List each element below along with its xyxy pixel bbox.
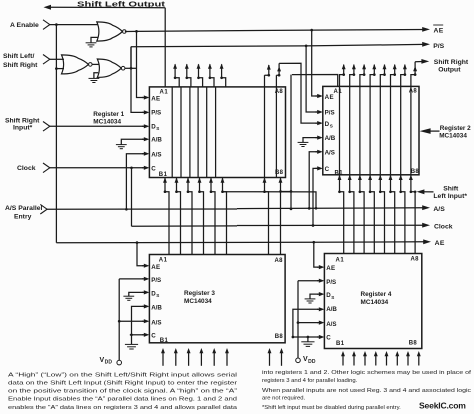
register 2 bus line 1 through box xyxy=(339,86,341,174)
wire AE rail down to register 3 AE xyxy=(137,243,144,266)
register 1 A-bus up-arrow 5 xyxy=(210,64,214,87)
svg-text:AE: AE xyxy=(435,240,445,247)
VDD supply terminal register 4 xyxy=(296,358,301,363)
svg-text:A8: A8 xyxy=(411,257,420,263)
register 1 internal bus line 5 xyxy=(206,87,208,178)
svg-text:Register 2: Register 2 xyxy=(440,125,471,132)
nor gate G1 (A Enable NOR gnd -> AE-bar) xyxy=(97,22,123,41)
register 2 A-bus hook and up-arrow 8 xyxy=(411,62,415,87)
svg-text:Clock: Clock xyxy=(17,165,36,172)
wire register 1 B8 branch to A/S bus drop xyxy=(281,191,292,193)
svg-text:Shift: Shift xyxy=(443,186,459,193)
svg-text:A/B: A/B xyxy=(151,305,162,312)
svg-text:S: S xyxy=(156,293,159,298)
wire mid vertical from A1 feed down to A/S bus xyxy=(290,75,292,209)
node junction A Enable bus to gate G2 input xyxy=(55,67,58,70)
svg-text:P/S: P/S xyxy=(151,277,161,284)
register 4 B output stub 2 xyxy=(353,355,355,365)
ground symbol at gate G4 input xyxy=(89,77,100,79)
svg-text:B1: B1 xyxy=(159,172,168,178)
input terminal chevron Shift Right Input xyxy=(43,122,50,132)
node junction A/S bus to register 1 A/S xyxy=(125,208,128,211)
node junction G4 output to P/S rail xyxy=(130,67,133,70)
svg-text:AE: AE xyxy=(325,94,334,101)
svg-text:AE: AE xyxy=(326,265,335,272)
register 2 B-bus jog 8 to register 4 xyxy=(409,175,413,180)
node junction mid vertical on A/S bus xyxy=(290,208,293,211)
svg-text:A/B: A/B xyxy=(326,306,337,313)
svg-text:B1: B1 xyxy=(160,338,169,344)
svg-text:AE: AE xyxy=(151,264,160,271)
svg-text:B8: B8 xyxy=(409,341,418,347)
register 2 bus line 8 through box xyxy=(410,86,412,174)
svg-text:A1: A1 xyxy=(159,258,168,264)
node junction register 4 A/B-C tie xyxy=(292,336,295,339)
register 3 B output stub 1 xyxy=(162,353,164,366)
wire Shift Left Output rail with left arrowhead xyxy=(50,6,165,9)
node junction AE-bar to register 2 AE xyxy=(310,29,313,32)
svg-text:P/S: P/S xyxy=(325,109,335,116)
svg-text:data on the Shift Left Input (: data on the Shift Left Input (Shift Righ… xyxy=(8,381,237,387)
register 1 B7 line to register 3 xyxy=(263,178,267,183)
register 3 B output stub 7 xyxy=(269,353,271,366)
output arrowhead A/S xyxy=(422,205,430,210)
pin arrow register 1 P/S xyxy=(142,111,144,113)
node junction register 4 C to ground xyxy=(307,336,310,339)
register 1 B-bus line 1 to register 3 xyxy=(163,178,167,183)
node junction register 3 A/S on VDD spine xyxy=(118,320,121,323)
register 2 bus line 4 through box xyxy=(369,86,371,174)
register 4 B output stub 6 xyxy=(396,355,398,365)
wire A/S Parallel Entry bus xyxy=(47,208,237,210)
output arrowhead P/S xyxy=(422,42,430,47)
wire junction to NOR gate G2 lower input xyxy=(56,68,64,70)
svg-text:A8: A8 xyxy=(409,89,418,95)
wire register 4 ground stem xyxy=(307,337,309,342)
wire VDD spine to register 3 P/S xyxy=(119,278,144,280)
pin arrow register 2 DS xyxy=(315,122,317,124)
svg-text:A1: A1 xyxy=(160,90,169,96)
node junction AE rail to register 4 AE xyxy=(312,241,315,244)
wire register 4 DS to ground xyxy=(310,294,319,299)
register 4 B output stub 1 xyxy=(342,355,344,365)
register 1 B-bus line 2 to register 3 xyxy=(175,178,179,183)
svg-text:A1: A1 xyxy=(334,89,343,95)
wire Shift Right Output from register 2 A8 xyxy=(415,61,423,63)
register 4 B output stub 7 xyxy=(407,355,409,365)
node junction AE rail to register 3 AE xyxy=(136,241,139,244)
register 2 B-bus jog 6 to register 4 xyxy=(389,175,393,180)
node junction P/S rail to register 2 P/S xyxy=(305,45,308,48)
node junction register 3 A/B-C tie xyxy=(130,333,133,336)
wire Shift Right Input to register 1 pin DS xyxy=(49,125,144,127)
register 2 B-bus jog 7 to register 4 xyxy=(399,175,403,180)
pin arrow register 2 A/S xyxy=(315,151,317,153)
svg-text:A/B: A/B xyxy=(325,135,336,142)
wire P/S down to register 1 pin P/S xyxy=(131,47,144,113)
pin arrow register 4 A/B xyxy=(317,308,319,310)
output arrowhead Clock xyxy=(422,223,430,228)
register 1 A8 hook with arrow feeding register 2 DS xyxy=(276,63,279,75)
register 4 B output stub 4 xyxy=(375,355,377,365)
register 3 B output stub 5 xyxy=(213,353,215,366)
register U1 Register 1 MC14034 box xyxy=(149,87,285,178)
wire register 4 A/S from VDD spine xyxy=(298,322,319,324)
register 2 B-bus jog 4 to register 4 xyxy=(368,175,372,180)
register 1 A8 riser through box xyxy=(275,75,277,177)
register U4 Register 4 MC14034 box xyxy=(324,254,421,349)
register 1 internal bus line 3 xyxy=(189,87,191,178)
svg-text:DD: DD xyxy=(308,359,316,365)
svg-text:A Enable: A Enable xyxy=(10,22,39,29)
ground symbol at register 2 A/B xyxy=(298,141,309,143)
svg-text:Shift Right: Shift Right xyxy=(3,62,38,69)
VDD supply terminal register 3 xyxy=(117,360,122,365)
wire register 1 B6 jog extension to A/S bus xyxy=(223,192,317,209)
pin arrow register 2 P/S xyxy=(315,111,317,113)
pin arrow register 2 A/B xyxy=(315,137,317,139)
register 2 B-bus jog 2 to register 4 xyxy=(348,175,352,180)
ground symbol at register 4 DS xyxy=(305,298,316,300)
svg-text:A/S: A/S xyxy=(325,149,335,156)
svg-text:Left Input*: Left Input* xyxy=(433,193,467,200)
register 4 B output stub 5 xyxy=(386,355,388,365)
wire AE-bar down to register 2 pin AE xyxy=(312,30,317,96)
register 2 A-bus hook and up-arrow 5 xyxy=(380,65,384,87)
wire G4 lower input stub to ground xyxy=(94,73,98,79)
register 3 B output stub 8 xyxy=(281,353,283,366)
svg-text:P/S: P/S xyxy=(151,110,161,117)
nor gate G4 (buffer NOR with grounded input -> P/S) xyxy=(97,59,121,77)
pin arrow register 3 DS xyxy=(142,291,144,293)
svg-text:registers 3 and 4 for parallel: registers 3 and 4 for parallel loading. xyxy=(262,378,358,384)
wire A Enable rail to right edge xyxy=(137,241,314,243)
register 2 A-bus hook and up-arrow 3 xyxy=(360,65,364,87)
svg-text:S: S xyxy=(156,126,159,131)
node junction mid vertical at B8 branch xyxy=(290,190,293,193)
register 3 B output stub 3 xyxy=(188,353,190,366)
svg-text:A/S: A/S xyxy=(151,319,161,326)
wire VDD spine vertical register 3 xyxy=(118,279,120,360)
register U3 Register 3 MC14034 box xyxy=(149,255,285,343)
wire P/S rail to right edge xyxy=(131,45,306,48)
register 2 A-bus hook and up-arrow 4 xyxy=(370,65,374,87)
register 1 A7 riser through box xyxy=(264,75,266,177)
register 2 bus line 6 through box xyxy=(390,86,392,174)
svg-text:C: C xyxy=(151,332,156,339)
wire Shift Left Output vertical drop to register 1 pin A1 xyxy=(164,8,166,87)
pin arrow register 1 C xyxy=(142,167,144,169)
register 2 A-bus hook and up-arrow 2 xyxy=(350,65,354,87)
wire register 3 A/B down to C junction and ground xyxy=(132,306,144,344)
wire A Enable rail corner at left xyxy=(56,242,137,244)
svg-text:C: C xyxy=(326,334,331,341)
node junction AE-bar to register 1 AE xyxy=(135,30,138,33)
wire Clock rail to right edge xyxy=(132,225,238,227)
input terminal chevron Clock xyxy=(43,163,50,173)
register 1 internal bus line 4 xyxy=(197,87,199,178)
wire clock drop to clock rail xyxy=(131,168,133,227)
wire VDD spine vertical register 4 xyxy=(297,281,299,358)
wire A Enable vertical bus down left side xyxy=(55,25,57,243)
wire A/S bus riser to register 2 A/S xyxy=(309,152,317,209)
register 2 A-bus hook and up-arrow 1 xyxy=(340,65,344,87)
wire Shift Left Input to register 2 B8 xyxy=(420,191,434,193)
register 1 B-bus line 6 to register 3 xyxy=(221,178,225,183)
register 1 internal bus line 1 xyxy=(171,87,173,178)
register 3 B output stub 2 xyxy=(175,353,177,366)
svg-text:C: C xyxy=(151,165,156,172)
register 2 A-bus hook and up-arrow 6 xyxy=(391,65,395,87)
svg-text:Register 4: Register 4 xyxy=(361,291,392,298)
register 2 bus line 7 through box xyxy=(400,86,402,174)
wire register1 A8 to register 2 DS xyxy=(279,63,317,123)
register U2 outer label Register 2 MC14034 with pointer arrow xyxy=(430,130,440,132)
register 1 A7 hook and up-arrow xyxy=(265,65,269,75)
input terminal chevron A Enable xyxy=(43,20,50,30)
register 1 internal bus line 6 xyxy=(215,87,217,178)
svg-text:A/S Parallel: A/S Parallel xyxy=(5,205,43,212)
svg-text:A/B: A/B xyxy=(151,137,162,144)
svg-text:When parallel inputs are not u: When parallel inputs are not used Reg. 3… xyxy=(262,388,471,394)
wire A Enable input to NOR gate G1 xyxy=(49,24,98,26)
output arrowhead AE-bar xyxy=(422,27,430,32)
svg-text:A “High” (“Low”) on the Shift: A “High” (“Low”) on the Shift Left/Shift… xyxy=(8,372,237,378)
svg-text:A1: A1 xyxy=(336,258,345,264)
svg-text:S: S xyxy=(330,123,333,128)
svg-text:Register 1: Register 1 xyxy=(93,111,124,118)
wire register 3 A/S from VDD spine xyxy=(119,320,144,322)
svg-text:A8: A8 xyxy=(275,258,284,264)
svg-text:AE: AE xyxy=(434,27,444,34)
wire G2 output to G4 input xyxy=(92,63,98,65)
wire AE rail down to register 4 AE xyxy=(314,242,319,267)
register 1 B8 line to register 3 xyxy=(279,178,283,183)
register U2 Register 2 MC14034 box xyxy=(323,86,419,174)
svg-text:DD: DD xyxy=(105,360,113,366)
svg-text:P/S: P/S xyxy=(326,279,336,286)
register 1 A-bus up-arrow 2 xyxy=(175,64,179,87)
ground symbol below register 3 xyxy=(125,343,138,345)
svg-text:Clock: Clock xyxy=(434,224,453,231)
svg-text:B8: B8 xyxy=(275,334,284,340)
svg-text:C: C xyxy=(325,166,330,173)
svg-text:Enable Input disables the “A”: Enable Input disables the “A” parallel d… xyxy=(8,397,237,403)
register 1 B-bus line 5 to register 3 xyxy=(209,178,213,183)
pin arrow register 3 C xyxy=(142,334,144,336)
svg-text:Shift Right: Shift Right xyxy=(5,118,40,125)
register 2 bus line 2 through box xyxy=(349,86,351,174)
wire G4 output stub xyxy=(125,67,137,69)
wire register 1 A/S from A/S bus xyxy=(126,154,143,210)
pin arrow register 3 P/S xyxy=(142,278,144,280)
wire Shift Left/Shift Right input to NOR gate G2 upper input xyxy=(49,58,64,60)
pin arrow register 3 A/B xyxy=(142,305,144,307)
nor gate G2 (Shift L/R NOR A Enable) xyxy=(62,55,89,74)
svg-text:on the positive transition of: on the positive transition of the clock … xyxy=(8,389,237,395)
register 4 B output stub 3 xyxy=(364,355,366,365)
svg-text:A/S: A/S xyxy=(151,151,161,158)
svg-text:P/S: P/S xyxy=(433,43,444,50)
wire Clock input to register 1 pin C xyxy=(49,167,144,169)
input terminal chevron A/S Parallel Entry xyxy=(40,204,47,214)
node junction A Enable / vertical bus xyxy=(55,23,58,26)
svg-text:MC14034: MC14034 xyxy=(439,133,467,140)
pin arrow register 4 P/S xyxy=(317,280,319,282)
svg-text:Register 3: Register 3 xyxy=(184,290,215,297)
wire register 1 A/B to ground xyxy=(121,139,144,144)
svg-text:are not required.: are not required. xyxy=(262,396,306,402)
wire VDD spine to register 4 P/S xyxy=(298,280,319,282)
register 2 bus line 5 through box xyxy=(379,86,381,174)
svg-text:Shift Right: Shift Right xyxy=(434,59,469,66)
node junction register 4 A/S on VDD spine xyxy=(297,321,300,324)
svg-text:A/S: A/S xyxy=(433,206,445,213)
node junction Shift Left Input on register 2 B8 xyxy=(414,190,417,193)
register 1 A-bus up-arrow 3 xyxy=(187,64,191,87)
wire register 4 A/B down to C line tie xyxy=(293,309,319,337)
svg-text:*Shift left input must be disa: *Shift left input must be disabled durin… xyxy=(262,405,401,411)
register 1 B-bus line 3 to register 3 xyxy=(186,178,190,183)
svg-text:SeekIC.com: SeekIC.com xyxy=(419,401,466,411)
pin arrow register 1 AE xyxy=(142,97,144,99)
svg-text:enables the “A” data lines on: enables the “A” data lines on registers … xyxy=(8,405,238,411)
pin arrow register 2 C xyxy=(315,167,317,169)
output arrowhead Shift Right Output xyxy=(421,59,429,64)
svg-text:into registers 1 and 2. Other: into registers 1 and 2. Other logic sche… xyxy=(262,370,471,376)
wire clock rail riser to register 2 C xyxy=(313,168,317,225)
svg-text:AE: AE xyxy=(151,95,160,102)
wire register 4 C feed line xyxy=(293,336,319,338)
svg-text:MC14034: MC14034 xyxy=(184,298,212,305)
ground symbol at register 1 A/B xyxy=(116,144,127,146)
svg-text:Input*: Input* xyxy=(13,125,33,132)
ground symbol at gate G1 input xyxy=(86,42,97,44)
wire G1 lower input stub to ground xyxy=(91,37,98,42)
pin arrow register 3 AE xyxy=(142,265,144,267)
ground symbol below register 4 xyxy=(301,341,314,343)
wire P/S riser from G4 output xyxy=(130,47,132,69)
wire register 3 DS to ground xyxy=(129,292,144,296)
wire P/S down to register 2 pin P/S xyxy=(306,46,317,112)
register 3 B output stub 6 xyxy=(226,353,228,366)
pin arrow register 1 A/B xyxy=(142,138,144,140)
svg-text:S: S xyxy=(331,295,334,300)
svg-text:B8: B8 xyxy=(411,169,420,175)
svg-text:B1: B1 xyxy=(335,170,344,176)
pin arrow register 1 DS xyxy=(142,125,144,127)
register 2 bus line 3 through box xyxy=(359,86,361,174)
register 2 B-bus jog 5 to register 4 xyxy=(378,175,382,180)
svg-text:A/S: A/S xyxy=(326,321,336,328)
wire AE-bar rail from G1 output to right edge xyxy=(125,30,137,32)
pin arrow register 4 A/S xyxy=(317,322,319,324)
register 2 B-bus jog 1 to register 4 xyxy=(338,175,342,180)
register 1 A-bus up-arrow 6 xyxy=(222,64,226,87)
pin arrow register 4 C xyxy=(317,336,319,338)
register 1 internal bus line 2 xyxy=(180,87,182,178)
wire register 3 C feed line xyxy=(130,334,144,336)
svg-text:Output: Output xyxy=(438,66,461,73)
register 2 A-bus hook and up-arrow 7 xyxy=(401,65,405,87)
wire register 2 A/B to ground xyxy=(303,138,317,143)
register 4 B output stub 8 xyxy=(418,355,420,365)
svg-text:B1: B1 xyxy=(336,341,345,347)
input terminal chevron Shift Left/Shift Right xyxy=(43,55,50,65)
pin arrow register 2 AE xyxy=(315,95,317,97)
pin arrow register 1 A/S xyxy=(142,153,144,155)
svg-text:Shift Left/: Shift Left/ xyxy=(3,53,34,60)
pin arrow register 3 A/S xyxy=(142,320,144,322)
pin arrow register 4 DS xyxy=(317,293,319,295)
svg-text:MC14034: MC14034 xyxy=(361,299,389,306)
register 1 B-bus line 4 to register 3 xyxy=(198,178,202,183)
register 2 B-bus jog 3 to register 4 xyxy=(358,175,362,180)
node junction Clock to clock rail drop xyxy=(130,166,133,169)
svg-text:Entry: Entry xyxy=(14,214,32,221)
svg-text:MC14034: MC14034 xyxy=(93,119,121,126)
wire AE-bar down to register 1 pin AE xyxy=(137,31,144,97)
pin arrow register 4 AE xyxy=(317,266,319,268)
register 1 A-bus up-arrow 4 xyxy=(199,64,203,87)
wire register 2 A1 feed top line xyxy=(292,75,338,87)
output arrowhead AE xyxy=(423,239,431,244)
register 3 B output stub 4 xyxy=(200,353,202,366)
ground symbol at register 3 DS xyxy=(123,295,134,297)
